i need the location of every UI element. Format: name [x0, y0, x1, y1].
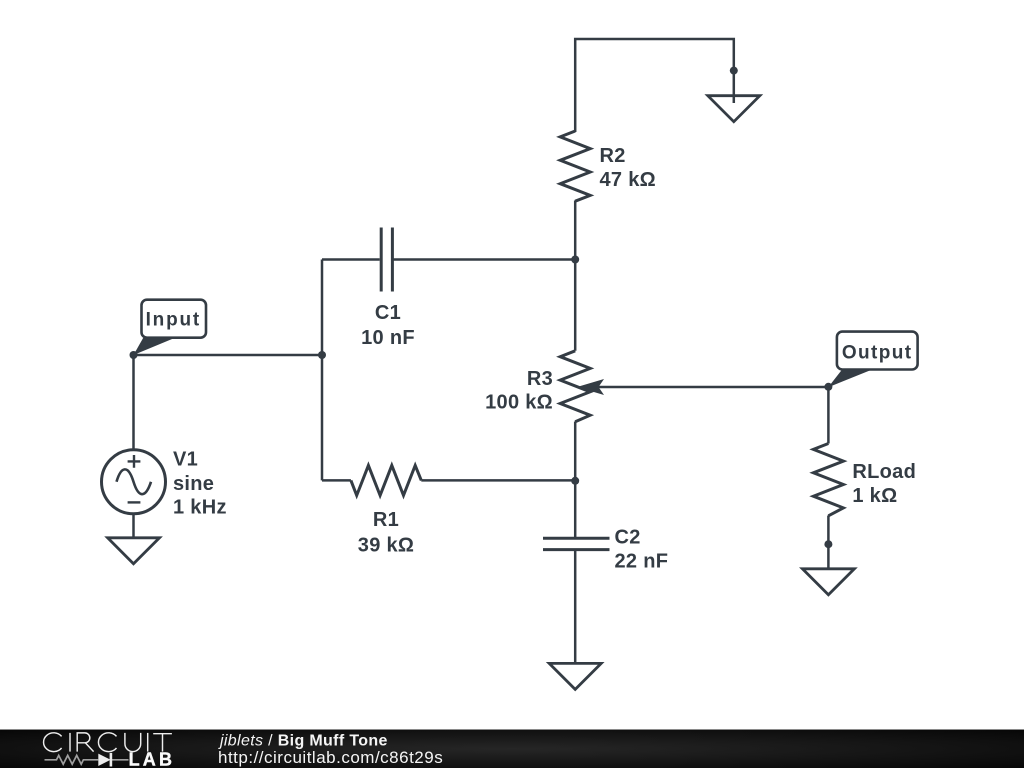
svg-text:22 nF: 22 nF	[615, 551, 669, 573]
wire R1 right lead to node B	[421, 479, 575, 482]
capacitor C2 plates	[543, 538, 610, 549]
wire R2 bottom to node A	[574, 201, 577, 260]
wire input node to C1 branch	[134, 354, 323, 357]
wire C1 right lead to node A	[394, 258, 576, 261]
wire output node to RLoad	[827, 387, 830, 444]
wire C1 left lead	[322, 258, 380, 261]
svg-text:http://circuitlab.com/c86t29s: http://circuitlab.com/c86t29s	[218, 748, 443, 767]
svg-text:R1: R1	[373, 509, 399, 531]
ground (C2)	[549, 663, 601, 689]
ground (VCC top right)	[708, 96, 760, 122]
ground (RLoad)	[802, 569, 854, 595]
junction node B	[571, 477, 579, 485]
svg-text:LAB: LAB	[129, 750, 176, 768]
svg-text:10 nF: 10 nF	[361, 327, 415, 349]
junction VCC ground	[730, 67, 738, 75]
resistor R2	[560, 131, 590, 201]
junction node A	[571, 256, 579, 264]
svg-text:47 kΩ: 47 kΩ	[600, 169, 656, 191]
svg-text:C2: C2	[615, 527, 641, 549]
capacitor C1 plates	[381, 228, 392, 292]
wire R1 left lead	[322, 479, 351, 482]
node Output flag	[828, 332, 917, 388]
potentiometer R3	[560, 351, 590, 422]
svg-text:R3: R3	[527, 368, 553, 390]
svg-text:R2: R2	[600, 145, 626, 167]
junction input node	[130, 351, 138, 359]
wire R3 bottom to node B	[574, 422, 577, 481]
wire VCC top: R2 top to ground branch	[575, 39, 734, 132]
svg-text:100 kΩ: 100 kΩ	[485, 392, 553, 414]
wire node A to R3 top	[574, 260, 577, 351]
wire V1 bottom to ground	[132, 514, 135, 538]
wire input node down to V1	[132, 355, 135, 450]
logo CircuitLab	[44, 733, 172, 752]
resistor R1	[351, 465, 421, 495]
potentiometer R3 wiper arrowhead	[577, 379, 604, 395]
junction RLoad ground	[824, 540, 832, 548]
ground (V1)	[108, 538, 160, 564]
svg-text:Output: Output	[842, 343, 913, 364]
svg-text:C1: C1	[375, 302, 401, 324]
wire node B to C2 top	[574, 481, 577, 537]
junction output node	[824, 383, 832, 391]
footer bar	[0, 729, 1024, 768]
node Input flag	[134, 300, 207, 355]
svg-text:V1: V1	[173, 449, 198, 471]
wire R3 wiper to output node	[596, 386, 828, 389]
svg-text:1 kHz: 1 kHz	[173, 497, 227, 519]
wire C2 bottom to ground	[574, 551, 577, 664]
svg-text:Input: Input	[146, 310, 201, 331]
wire RLoad bottom	[827, 516, 830, 569]
svg-text:RLoad: RLoad	[852, 461, 916, 483]
resistor RLoad	[813, 444, 843, 516]
junction C1 branch node	[318, 351, 326, 359]
svg-text:1 kΩ: 1 kΩ	[852, 485, 897, 507]
voltage source V1	[102, 450, 166, 514]
svg-text:39 kΩ: 39 kΩ	[358, 534, 414, 556]
svg-text:sine: sine	[173, 473, 214, 495]
wire C1 branch vertical	[321, 260, 324, 481]
